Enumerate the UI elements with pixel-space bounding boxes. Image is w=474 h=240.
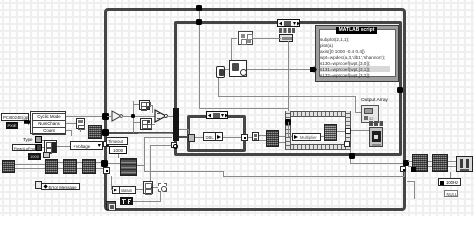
wire into AI read xyxy=(108,163,120,164)
node: AI Start chain D xyxy=(82,159,96,174)
Timeout label xyxy=(106,137,128,145)
wire icon3 left down to icon2 xyxy=(231,38,237,39)
node: simple error handler xyxy=(456,156,473,172)
wire max down xyxy=(80,129,81,132)
node: bundle 2x3 xyxy=(44,140,57,153)
iteration terminal i xyxy=(106,201,116,210)
node: AI Read icon xyxy=(120,158,137,176)
node: small convert icon (icon1) xyxy=(216,66,225,78)
sequence selector [A] xyxy=(277,19,300,27)
wires into big triangle xyxy=(150,105,153,106)
small sequence structure xyxy=(187,115,246,152)
tunnel dot on sequence right border y89 xyxy=(397,87,403,93)
wire bundle out xyxy=(57,146,70,147)
wire status to or node xyxy=(136,189,143,190)
Type label xyxy=(23,137,33,142)
tunnel on for loop bottom-right xyxy=(344,141,350,147)
node: write file hatched icon xyxy=(266,130,279,147)
wire icon2 to MATLAB node xyxy=(247,69,312,70)
for loop (textured border) xyxy=(285,111,351,117)
tunnel lower on right border xyxy=(400,166,406,172)
stepped stop wire xyxy=(137,165,145,166)
stop terminal TF xyxy=(120,197,133,205)
small const above chain xyxy=(43,152,50,158)
wire icon to right tunnel xyxy=(337,131,346,132)
wire icon3 right to data-size constant xyxy=(253,38,281,39)
wire chain xyxy=(15,164,45,165)
node: error in icon (far left) xyxy=(2,160,15,173)
while loop (outer) xyxy=(104,8,406,211)
wire label to icon xyxy=(321,136,324,137)
waveform chart label 波形图 xyxy=(369,121,384,126)
wire or node to cond box xyxy=(153,187,158,188)
ring constant +Voltage xyxy=(70,141,103,150)
node: chain C xyxy=(63,159,77,174)
tunnel box lower xyxy=(103,167,110,174)
tunnel dot on outer loop top border xyxy=(196,5,202,11)
node: unbundle/or 2-cell xyxy=(143,181,153,194)
tunnel voltage on border xyxy=(103,141,109,147)
wire vertical x199 from top tunnels xyxy=(199,9,200,108)
wire down to loop label xyxy=(450,172,451,179)
long status wire bottom of sequence xyxy=(350,163,406,164)
Error Message label xyxy=(35,181,42,189)
wire AI config to sequence (dark task wire) xyxy=(102,132,175,134)
wire out right and down xyxy=(407,181,415,182)
wire icon1 to icon2 xyxy=(225,69,229,70)
sequence structure frame xyxy=(174,21,402,156)
wires to for loop xyxy=(279,136,285,137)
wire pair to error chain xyxy=(408,161,457,162)
wires to hatched icon xyxy=(259,135,266,136)
tunnel on small seq right xyxy=(241,134,248,141)
DBL coercion box xyxy=(203,132,216,141)
tunnel on for loop right border xyxy=(345,128,351,134)
label 100Hz xyxy=(438,178,461,186)
node: unbundle 2x3 bottom xyxy=(140,118,152,130)
black tunnel stack on sequence left border xyxy=(173,108,179,141)
comparison triangle small xyxy=(111,110,123,122)
unbundle label inside for loop xyxy=(292,133,321,141)
node: AI Clear icon xyxy=(412,154,428,172)
constant 1000 xyxy=(109,146,127,154)
junction dot row1 on border xyxy=(102,113,109,120)
wire down from for loop to long wire xyxy=(350,147,351,164)
wire tunnel to waveform chart xyxy=(351,130,369,131)
wire icon1 down to output array xyxy=(218,78,219,96)
label NULL xyxy=(444,190,458,197)
junction dot on for loop left xyxy=(285,119,291,125)
node: error to warning icon xyxy=(432,154,448,172)
tunnel dot on sequence top border xyxy=(196,19,202,25)
status unbundle label xyxy=(112,186,136,194)
node: array icon top (icon3) xyxy=(238,31,253,45)
conditional terminal box xyxy=(158,183,167,192)
wire big triangle out to black tunnels xyxy=(166,116,174,117)
MATLAB title tab xyxy=(336,27,377,34)
type icon xyxy=(35,136,42,143)
wire row1 to loop xyxy=(66,116,104,117)
label 数据大小 (data size) xyxy=(279,28,295,33)
node: process icon in for loop xyxy=(324,124,337,141)
wire to DBL xyxy=(195,137,203,138)
junction dot right border y163 xyxy=(403,160,409,166)
wire out xyxy=(248,137,252,138)
wire from data-size down to for loop xyxy=(288,41,289,122)
convert arrow icon xyxy=(215,132,223,141)
wire triangle out xyxy=(122,116,155,117)
wire arrow into cluster xyxy=(24,119,31,125)
wires into bundle xyxy=(42,140,44,141)
wire row3 xyxy=(66,130,72,131)
wire into triangle xyxy=(107,116,112,117)
wire to right tunnel xyxy=(223,137,242,138)
waveform chart terminal icon xyxy=(369,127,383,147)
black tunnel on border xyxy=(101,160,108,167)
riser x133 xyxy=(133,101,134,133)
node: AI Config icon xyxy=(88,125,102,139)
wire horizontal y108 xyxy=(199,108,289,109)
node: Max const xyxy=(76,118,85,129)
node: index array icon (icon2) xyxy=(229,60,247,77)
wire from TF to or node xyxy=(133,201,161,202)
constant 1000 black xyxy=(28,153,41,160)
wires entering small sequence area xyxy=(138,133,172,134)
wire into multiplier label xyxy=(288,122,289,136)
readlofront icon xyxy=(36,144,42,151)
ring tunnel under xyxy=(171,142,177,148)
wire row2 to max xyxy=(66,123,76,124)
wire from sequence tunnels into small sequence xyxy=(179,129,189,130)
black tunnel on sequence bottom border xyxy=(349,153,355,159)
MATLAB script node xyxy=(315,25,399,82)
big triangle node xyxy=(154,109,168,123)
Output Array indicator icon xyxy=(361,105,379,123)
small sequence selector xyxy=(206,111,228,119)
MATLAB script text xyxy=(320,37,385,79)
MATLAB input arrow xyxy=(310,66,317,73)
tunnel on small seq left xyxy=(188,134,195,142)
wire from AI read down to status xyxy=(111,176,112,189)
Output Array label xyxy=(361,98,388,103)
constant icon below label xyxy=(279,34,293,42)
node: AI config chain B xyxy=(45,159,58,174)
small 2cell icon xyxy=(252,132,259,141)
device constant black xyxy=(6,122,18,129)
node: unbundle 2x2 top xyxy=(139,100,150,110)
device label xyxy=(1,113,29,121)
tunnel on loop left border (task) xyxy=(102,129,109,136)
highlight line 6 xyxy=(320,66,390,72)
ReadLoFront label xyxy=(12,144,36,151)
cluster constant: Cyclic Mode / NumChans / Count xyxy=(30,111,66,134)
